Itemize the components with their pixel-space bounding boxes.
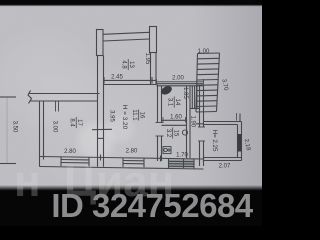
svg-text:1.85: 1.85: [182, 87, 188, 99]
svg-text:14: 14: [174, 99, 180, 106]
svg-text:3.2: 3.2: [165, 129, 171, 138]
svg-text:2.00: 2.00: [172, 75, 184, 81]
svg-text:1.95: 1.95: [144, 53, 150, 65]
svg-text:H = 3.20: H = 3.20: [121, 105, 128, 130]
svg-text:11.1: 11.1: [131, 109, 137, 121]
svg-text:1.00: 1.00: [198, 49, 210, 55]
svg-text:1.60: 1.60: [170, 114, 182, 120]
svg-text:3.50: 3.50: [12, 121, 18, 133]
svg-text:13: 13: [128, 61, 134, 68]
svg-text:3.95: 3.95: [109, 110, 115, 122]
svg-text:2.80: 2.80: [64, 149, 76, 155]
svg-text:1.70: 1.70: [176, 153, 188, 159]
svg-text:4.8: 4.8: [120, 60, 126, 69]
svg-text:H= 2.25: H= 2.25: [211, 130, 218, 152]
svg-text:3.1: 3.1: [166, 98, 172, 107]
svg-text:2.07: 2.07: [219, 163, 231, 169]
svg-text:3.00: 3.00: [52, 121, 58, 133]
svg-text:1.90: 1.90: [190, 115, 196, 127]
svg-text:2.45: 2.45: [111, 74, 123, 80]
svg-text:ID 324752684: ID 324752684: [51, 187, 253, 224]
svg-text:8.4: 8.4: [68, 118, 74, 127]
svg-text:2.80: 2.80: [126, 148, 138, 154]
svg-text:16: 16: [138, 112, 144, 119]
svg-text:17: 17: [76, 119, 82, 126]
svg-text:15: 15: [172, 130, 178, 137]
